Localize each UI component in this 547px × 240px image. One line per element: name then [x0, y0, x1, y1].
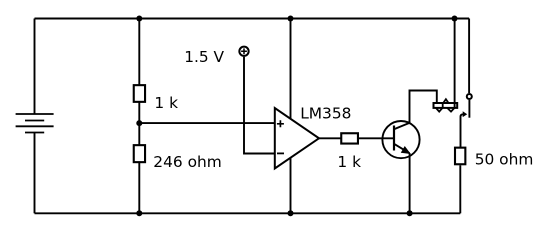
resistor R4 50 ohm (load) [455, 148, 465, 165]
wire emitter to bottom rail [409, 153, 411, 213]
svg-text:246 ohm: 246 ohm [153, 153, 221, 171]
wire relay coil to top rail [454, 19, 456, 108]
wire left branch bottom (battery to bottom rail) [34, 133, 36, 214]
wire collector to relay coil [410, 91, 437, 123]
svg-text:50 ohm: 50 ohm [475, 150, 534, 168]
transistor Q1 [382, 121, 419, 158]
node divider tap junction [136, 120, 142, 126]
wire noninverting input (divider tap to op-amp +) [139, 122, 274, 124]
svg-text:1 k: 1 k [154, 94, 178, 112]
node bottom rail op-amp V- junction [288, 210, 294, 216]
node top rail divider junction [136, 16, 142, 22]
wire stationary contact lower stub [468, 100, 470, 118]
relay contact K1 movable arm [461, 111, 468, 147]
wire left branch top (battery to top rail) [34, 19, 36, 115]
wire divider branch vertical [138, 19, 140, 214]
node bottom rail emitter junction [407, 210, 413, 216]
battery B1 [16, 114, 54, 133]
wire op-amp power rails [290, 19, 292, 214]
resistor R1 1 k (divider upper) [134, 85, 145, 102]
wire load to bottom rail [459, 165, 461, 213]
wire bottom rail [35, 212, 461, 214]
svg-text:1 k: 1 k [337, 153, 361, 171]
wire inverting input (1.5 V source to op-amp -) [244, 57, 275, 154]
wire stationary contact from top rail [468, 19, 470, 94]
relay coil K1 [434, 99, 458, 111]
resistor R3 1 k (base resistor) [341, 133, 358, 143]
wire op-amp output to transistor base [319, 137, 394, 139]
resistor R2 246 ohm (divider lower) [134, 145, 145, 162]
svg-text:LM358: LM358 [300, 105, 351, 123]
wire top rail [35, 18, 470, 20]
svg-text:1.5 V: 1.5 V [184, 48, 224, 66]
voltage source V1 1.5 V terminal [239, 47, 248, 56]
op-amp U1 LM358 [275, 108, 319, 169]
relay contact K1 stationary terminal [467, 94, 472, 99]
node top rail relay coil junction [452, 16, 458, 22]
node top rail op-amp V+ junction [288, 16, 294, 22]
node bottom rail divider junction [136, 210, 142, 216]
